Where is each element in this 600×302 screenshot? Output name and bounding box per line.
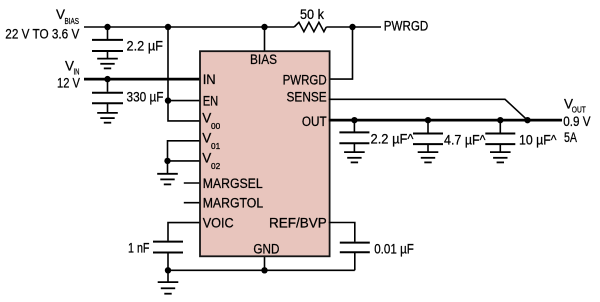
node junction bottom rail left [165, 267, 171, 273]
capacitor C3 1 nF [128, 241, 183, 271]
svg-text:BIAS: BIAS [65, 17, 80, 26]
wire PWRGD rail down to pin [329, 27, 353, 79]
svg-text:V: V [202, 110, 211, 125]
node junction on rail at BIAS [261, 24, 267, 30]
svg-text:2.2 µF: 2.2 µF [127, 38, 164, 53]
svg-text:00: 00 [211, 122, 221, 131]
svg-text:EN: EN [203, 93, 219, 108]
ground below C1 [97, 59, 118, 69]
net label VIN [57, 58, 80, 90]
svg-text:5A: 5A [564, 130, 577, 145]
net label VBIAS [5, 7, 79, 42]
svg-text:330 µF: 330 µF [127, 90, 164, 105]
capacitor C6 10 uF [485, 120, 557, 151]
svg-text:0.9 V: 0.9 V [563, 114, 590, 129]
wire VIN to IN pin (thick) [84, 78, 201, 81]
svg-text:OUT: OUT [302, 114, 327, 129]
node junction OUT at SENSE [524, 117, 530, 123]
node junction bottom rail GND [261, 267, 267, 273]
wire V01 to V02 tie [168, 141, 202, 161]
ground below bottom rail [158, 270, 179, 293]
node junction OUT at C6 [497, 117, 503, 123]
svg-text:VOIC: VOIC [203, 215, 234, 230]
node junction VIN at C2 [104, 76, 110, 82]
svg-text:SENSE: SENSE [287, 89, 327, 104]
svg-text:MARGTOL: MARGTOL [203, 196, 264, 211]
svg-text:GND: GND [253, 242, 279, 257]
wire rail down to EN and V00 [168, 27, 201, 121]
capacitor C7 0.01 uF [340, 242, 414, 271]
svg-text:IN: IN [203, 72, 216, 87]
svg-text:V: V [202, 150, 211, 165]
svg-text:10 µF^: 10 µF^ [519, 133, 557, 148]
wire V02 to ground [167, 161, 169, 173]
capacitor C2 330 uF [92, 79, 164, 112]
svg-text:50 k: 50 k [300, 7, 324, 22]
node junction V02 [164, 158, 170, 164]
svg-text:1 nF: 1 nF [128, 241, 150, 256]
svg-text:V: V [202, 130, 211, 145]
capacitor C1 2.2 uF [92, 27, 163, 58]
svg-text:0.01 µF: 0.01 µF [374, 242, 414, 257]
svg-text:4.7 µF^: 4.7 µF^ [444, 133, 486, 148]
wire MARGSEL stub [184, 182, 201, 184]
ground below C2 [97, 113, 118, 123]
wire resistor to PWRGD [326, 26, 381, 28]
wire SENSE [329, 99, 528, 120]
svg-text:2.2 µF^: 2.2 µF^ [371, 132, 415, 147]
svg-text:MARGSEL: MARGSEL [203, 176, 263, 191]
wire EN pin [168, 100, 201, 102]
svg-text:12 V: 12 V [57, 75, 80, 90]
resistor R1 [294, 7, 326, 32]
node junction rail to PWRGD pin [349, 24, 355, 30]
svg-text:REF/BVP: REF/BVP [269, 216, 327, 231]
net label VOUT [563, 97, 590, 145]
svg-text:PWRGD: PWRGD [384, 18, 429, 33]
ground below C4 [344, 152, 365, 162]
node junction OUT at C5 [425, 117, 431, 123]
op-amp U1 regulator body [200, 51, 330, 256]
node junction on rail at C1 [104, 24, 110, 30]
wire GND pin to rail [264, 256, 266, 270]
node junction EN [165, 97, 171, 103]
svg-text:01: 01 [211, 142, 220, 151]
capacitor C4 2.2 uF [339, 120, 414, 151]
svg-text:BIAS: BIAS [250, 52, 277, 67]
wire VOIC to C3 [168, 223, 201, 241]
node junction on rail at EN feed [165, 24, 171, 30]
capacitor C5 4.7 uF [413, 120, 486, 151]
node junction OUT at C4 [351, 117, 357, 123]
svg-text:02: 02 [211, 162, 220, 171]
wire OUT (thick) [329, 119, 562, 122]
wire BIAS pin [264, 27, 266, 52]
svg-text:22 V TO 3.6 V: 22 V TO 3.6 V [5, 27, 79, 42]
wire bottom ground rail [168, 269, 355, 271]
wire MARGTOL stub [184, 202, 201, 204]
wire VBIAS rail [84, 26, 294, 28]
ground below C5 [418, 152, 439, 162]
ground below C6 [490, 152, 511, 162]
ground for V01 V02 [157, 174, 178, 185]
wire REF/BVP to C7 [329, 223, 355, 242]
svg-text:PWRGD: PWRGD [283, 73, 327, 88]
